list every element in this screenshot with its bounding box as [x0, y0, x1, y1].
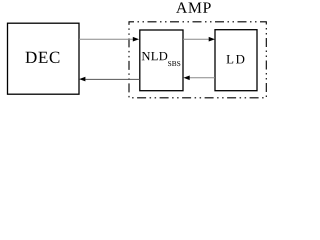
label AMP — [176, 2, 211, 12]
amplifier enclosure AMP (dash-dot-dot box) — [129, 22, 266, 98]
block LD — [215, 30, 257, 91]
block NLD_SBS — [140, 30, 183, 91]
label NLD — [142, 52, 168, 60]
label SBS subscript — [168, 61, 180, 66]
wire NLD to LD (top, arrow right) — [183, 37, 215, 42]
block DEC — [8, 23, 80, 94]
wire DEC to NLD (top, arrow right) — [79, 37, 139, 42]
label LD — [226, 55, 244, 63]
wire NLD to DEC (bottom return, arrow left) — [79, 77, 140, 82]
wire LD to NLD (bottom, arrow left) — [183, 76, 215, 81]
label DEC — [25, 52, 59, 63]
